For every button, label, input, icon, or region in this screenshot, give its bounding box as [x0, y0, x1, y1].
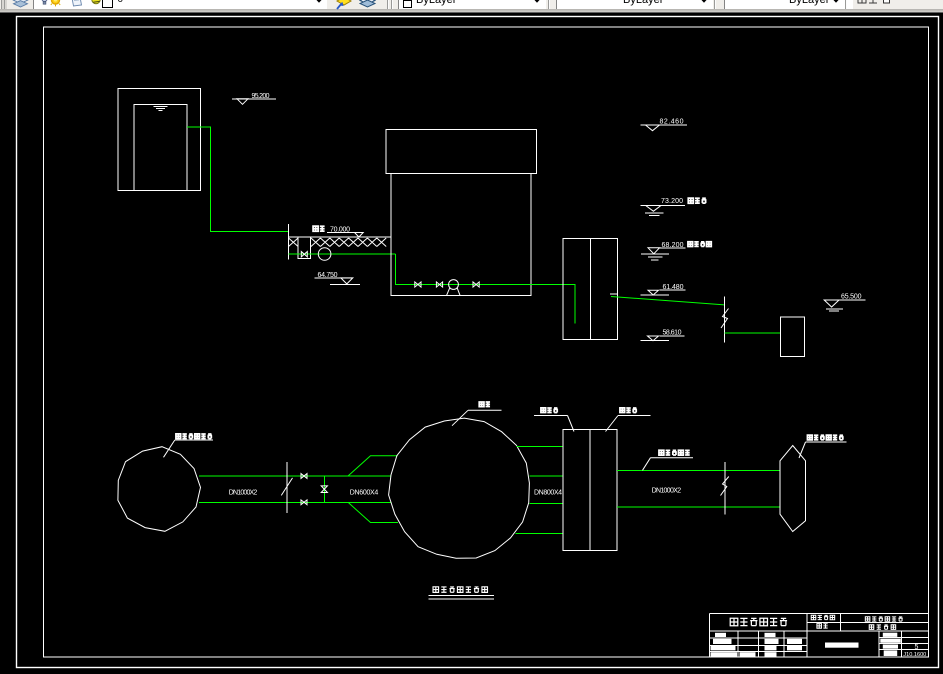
branch flare bottom (green)	[348, 502, 398, 522]
elevation 64.750	[314, 272, 360, 285]
twin DN1000 pipes (green)	[199, 476, 348, 502]
collecting well	[563, 239, 618, 340]
elevation 68.200 average water level	[641, 242, 711, 260]
pump P1 circle	[318, 248, 331, 261]
layer previous icon	[358, 0, 377, 9]
section break line	[724, 296, 726, 342]
valve top pipe	[301, 474, 307, 479]
screen chamber box	[298, 237, 311, 259]
elevated water tank outer shell	[118, 89, 201, 191]
outgoing DN1000 pipes (green)	[617, 471, 781, 508]
elevation 73.200 flood level	[641, 198, 707, 216]
lightbulb icon	[41, 0, 48, 6]
layer name 0	[118, 0, 124, 5]
ground hatch left	[289, 238, 299, 247]
drawing title: water intake flow diagram	[429, 587, 495, 599]
elevation 58.610	[641, 330, 685, 341]
suction well divider	[589, 430, 591, 551]
river intake chamber	[781, 317, 805, 356]
project: city water supply engineering	[865, 617, 902, 622]
suction pipe (green)	[289, 253, 396, 255]
plot icon	[91, 0, 102, 7]
redacted name bars	[711, 633, 901, 657]
svg-text:82.460: 82.460	[660, 119, 684, 126]
pipe to river chamber (green)	[725, 332, 781, 334]
valve V3	[473, 282, 479, 287]
intake well wall	[288, 224, 290, 260]
sloped gravity pipe (green)	[611, 297, 725, 305]
gravity pipe from tank (green)	[187, 127, 289, 232]
svg-text:73.200: 73.200	[661, 198, 683, 205]
plan break line right	[724, 462, 726, 515]
padlock icon	[70, 0, 83, 8]
sun icon	[50, 0, 61, 8]
clear well polygon (plan)	[118, 447, 201, 532]
svg-text:J10.1600: J10.1600	[903, 652, 926, 658]
pump house body	[391, 174, 531, 296]
straight branches to pump house (green)	[348, 476, 391, 502]
university name	[730, 618, 787, 626]
elevation 65.500	[824, 294, 865, 311]
plot style text (disabled)	[857, 0, 897, 7]
svg-text:DN1000X2: DN1000X2	[229, 489, 258, 496]
suction and collecting well (plan)	[563, 430, 617, 551]
svg-text:5: 5	[915, 644, 919, 651]
field: major	[817, 624, 828, 629]
label clear-well distribution valve	[164, 434, 214, 457]
outlet stub	[610, 293, 618, 295]
pump symbol legs	[447, 288, 460, 295]
layer manager icon	[11, 0, 30, 8]
pump house roof	[386, 130, 537, 174]
pump house internal pipe (green)	[396, 254, 576, 323]
pump house circle (plan)	[389, 418, 530, 558]
valve V2	[436, 282, 442, 287]
tank water level symbol	[154, 107, 168, 111]
svg-text:DN600X4: DN600X4	[350, 489, 379, 496]
section break squiggle	[721, 309, 729, 329]
plan break line left	[286, 462, 288, 513]
pump symbol circle	[449, 280, 459, 290]
branch flare top (green)	[348, 456, 398, 476]
label connect to city water main	[799, 435, 847, 458]
collecting well divider	[589, 239, 591, 340]
label pump house	[452, 402, 502, 426]
label raw water gravity main	[643, 450, 694, 470]
field: project name	[811, 615, 834, 620]
drawing: intake works	[869, 625, 895, 630]
elevation 95.200	[232, 93, 276, 104]
four pipes pump house to suction well (green)	[515, 447, 563, 534]
valve V1	[415, 282, 421, 287]
elevated water tank inner wall	[134, 105, 187, 191]
svg-text:DN800X4: DN800X4	[534, 490, 562, 497]
color chip bylayer	[403, 0, 412, 8]
elevation 61.480	[641, 284, 686, 295]
svg-text:DN1000X2: DN1000X2	[652, 488, 682, 495]
ground hatch right	[311, 238, 386, 247]
cross connection (green)	[323, 476, 325, 502]
intake platform line	[289, 236, 391, 238]
label suction chamber	[534, 408, 574, 432]
svg-text:58.610: 58.610	[663, 330, 682, 337]
city main junction hexagon	[780, 446, 806, 532]
elevation 82.460	[641, 119, 688, 131]
cross connection valve	[321, 486, 327, 493]
title block frame	[710, 614, 929, 658]
plan break slash	[281, 478, 292, 496]
label grating + elevation 70.000	[313, 226, 363, 237]
layer color chip	[102, 0, 113, 8]
valve bottom pipe	[301, 500, 307, 505]
label collecting chamber	[606, 408, 651, 432]
plan break squiggle right	[721, 477, 729, 496]
valve in screen chamber	[301, 252, 307, 257]
set layer current icon	[334, 0, 352, 11]
